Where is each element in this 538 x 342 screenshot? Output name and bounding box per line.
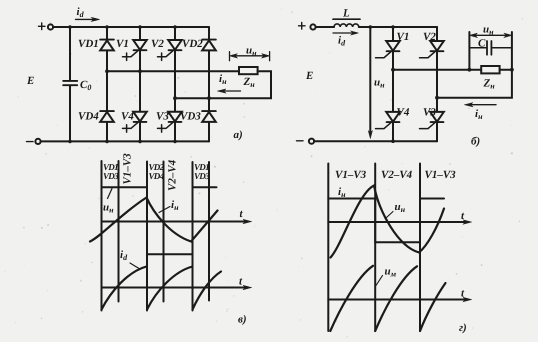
wire C branch right vertical (b) [511,32,513,70]
svg-text:id: id [338,35,346,48]
svg-text:id: id [77,6,85,19]
svg-text:V2–V4: V2–V4 [381,169,413,181]
grid vertical x=328.3 (g) [327,164,329,332]
waveform u_n load voltage curve (g) [331,186,445,258]
current label i_d with arrow (a) [76,6,100,21]
time axis 2 (g) [328,288,471,302]
svg-text:а): а) [234,129,243,141]
svg-text:б): б) [471,136,480,148]
grid vertical x=375.2 (g) [374,164,376,332]
wire load right segment (b) [500,69,512,71]
svg-text:V3: V3 [423,107,436,119]
wire VD2/VD3 branch vertical (a) [208,27,210,141]
thyristor V2 [151,38,182,60]
wire V2/V3 branch vertical (a) [174,27,176,141]
svg-text:L: L [342,8,350,20]
svg-text:Zн: Zн [243,76,256,89]
grid vertical x=163.5 (v) [163,162,165,302]
svg-text:E: E [26,75,34,87]
wire C0 branch vertical (a) [69,27,71,141]
svg-text:uм: uм [385,266,397,279]
grid vertical x=147 (v) [146,162,148,311]
time axis 1 (v) [102,208,252,224]
label u_m with leader (g) [376,266,397,286]
terminal + (b) [299,23,316,30]
terminal - (a) [27,139,41,144]
diode VD1 [78,38,114,50]
capacitor C (b) [469,38,512,55]
svg-text:VD3: VD3 [103,171,119,181]
terminal + (a) [39,23,54,30]
svg-text:E: E [305,70,313,82]
svg-text:V2: V2 [423,31,436,43]
wire top rail (b) [316,26,334,28]
interval label VD1 VD3 second (v) [194,162,210,181]
svg-text:t: t [239,276,243,288]
grid vertical x=420 (g) [419,164,421,332]
inductor L [333,8,360,28]
svg-text:uн: uн [374,77,385,90]
resistor Zn (a) [239,67,258,89]
waveform i_d sawtooth piece 2 (v) [147,267,193,310]
svg-text:в): в) [238,314,247,326]
diode VD2 [182,38,216,50]
node dots circuit (a) [68,25,211,143]
svg-text:C0: C0 [80,79,91,92]
waveform i_n square wave (g) [328,199,444,243]
svg-text:г): г) [459,322,467,334]
svg-text:V1: V1 [397,31,410,43]
wire bottom rail (b) [314,140,437,142]
node dots circuit (b) [369,25,514,143]
svg-text:V4: V4 [397,107,410,119]
terminal - (b) [297,139,315,144]
svg-text:V2–V4: V2–V4 [167,159,179,191]
svg-text:V3: V3 [156,111,169,123]
thyristor V4 (b) [376,107,410,129]
svg-text:iн: iн [338,186,346,199]
interval label VD1 VD3 first (v) [103,162,119,181]
svg-text:Zн: Zн [483,78,496,91]
svg-text:uн: uн [483,24,494,37]
resistor Zn (b) [481,66,499,91]
svg-text:C: C [478,38,486,50]
current label i_d with arrow (b) [333,31,359,47]
wire C branch left vertical (b) [468,32,470,70]
waveform u_m sawtooth piece 2 (g) [375,266,417,331]
svg-text:uн: uн [395,201,406,214]
svg-text:VD1: VD1 [78,38,99,50]
svg-text:VD4: VD4 [149,171,165,181]
wire load right + return (a) [175,71,271,98]
current arrow i_n (b) [465,103,497,121]
wire V2/V3 branch vertical (b) [436,27,438,141]
waveform u_m sawtooth piece 1 (g) [330,266,373,331]
grid vertical x=192.5 (v) [192,162,194,311]
svg-text:V1–V3: V1–V3 [425,169,457,181]
svg-text:uн: uн [103,202,114,215]
waveform i_d sawtooth piece 3 (v) [193,272,222,310]
thyristor V2 (b) [420,31,444,58]
svg-text:VD3: VD3 [194,171,210,181]
label i_n with leader (v) [159,199,179,213]
wire load upper (node A to Zn) (a) [107,70,239,72]
waveform u_m sawtooth piece 3 (g) [420,283,446,331]
time axis 1 (g) [328,210,471,224]
svg-text:VD4: VD4 [78,111,99,123]
interval label VD2 VD4 (v) [149,162,165,181]
label u_n with tick (v) [103,189,114,215]
thyristor V3 (b) [420,107,444,129]
time axis 2 (v) [102,276,252,290]
voltage dimension u_n (a) [230,45,270,61]
svg-text:VD2: VD2 [182,38,203,50]
svg-text:t: t [240,208,244,220]
svg-text:iн: iн [219,73,227,86]
svg-text:V1: V1 [116,38,129,50]
wire top rail right of L (b) [359,26,437,28]
grid vertical x=118.5 (v) [118,161,120,302]
current arrow i_n (a) [218,73,241,93]
thyristor V3 [156,111,182,133]
svg-text:id: id [120,249,128,262]
thyristor V1 [116,38,147,60]
wire top rail (a) [53,26,209,28]
diode VD3 [180,111,216,123]
svg-text:V2: V2 [151,38,164,50]
svg-text:V4: V4 [121,111,134,123]
label i_d with leader (v) [120,249,140,269]
wire load upper (b) [393,69,481,71]
grid vertical x=101.5 (v) [101,161,103,311]
svg-text:uн: uн [246,45,257,58]
wire V1/V4 branch vertical (a) [139,27,141,141]
wire bottom rail (a) [41,140,209,142]
waveform i_d sawtooth piece 1 (v) [102,267,147,310]
capacitor C0 [63,79,91,92]
diode VD4 [78,111,114,123]
grid vertical x=209 (v) [208,162,210,301]
svg-text:iн: iн [475,108,483,121]
label u_n with leader (g) [387,201,406,218]
wire load return lower (b) [437,70,512,98]
svg-text:V1–V3: V1–V3 [335,169,367,181]
wire VD1/VD4 branch vertical (a) [106,27,108,141]
thyristor V1 (b) [376,31,410,58]
thyristor V4 [121,111,147,133]
svg-text:VD3: VD3 [180,111,201,123]
waveform u_n square wave (v) [102,187,217,254]
voltage arrow u_n bridge input (b) [368,27,385,139]
voltage dimension u_n (b) [469,24,512,38]
waveform i_n load current curve (v) [90,198,218,242]
wire V1/V4 branch vertical (b) [392,27,394,141]
svg-text:iн: iн [171,199,179,212]
svg-text:V1–V3: V1–V3 [122,153,134,185]
